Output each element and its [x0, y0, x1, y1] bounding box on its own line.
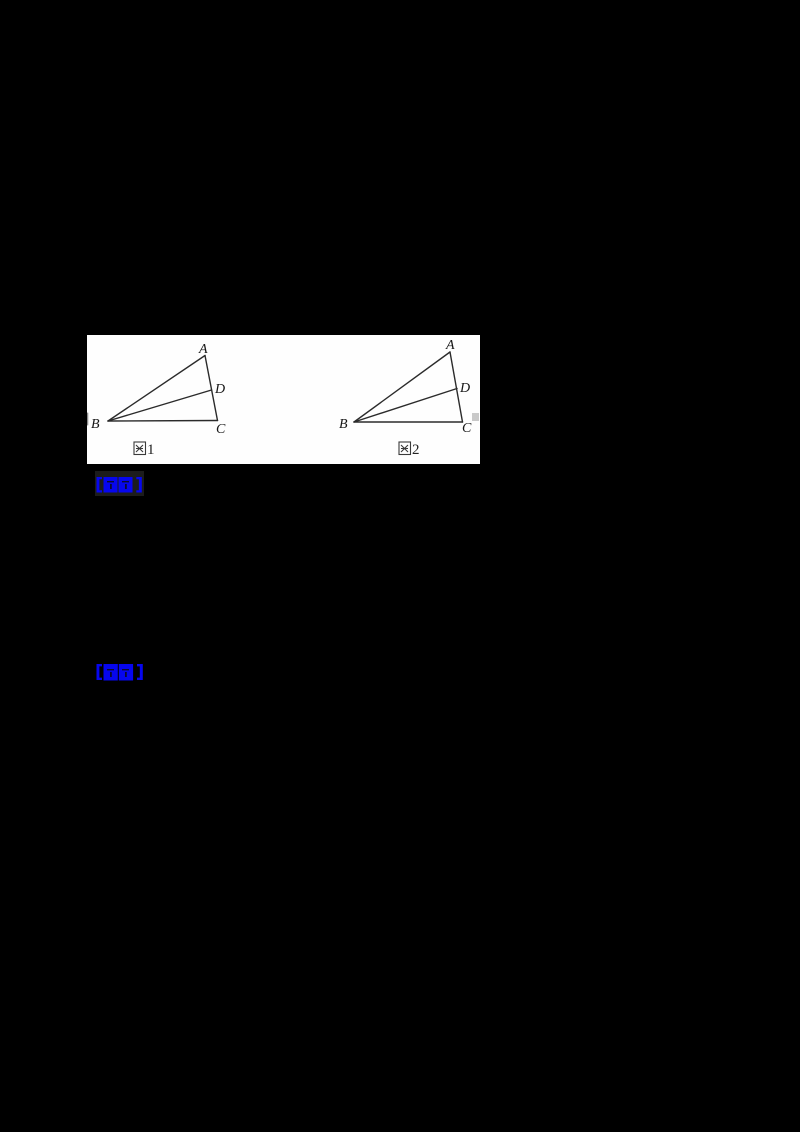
svg-text:A: A — [198, 342, 208, 357]
svg-text:C: C — [216, 422, 226, 437]
svg-text:C: C — [462, 421, 472, 436]
svg-text:B: B — [339, 417, 348, 432]
svg-text:A: A — [445, 338, 455, 353]
svg-text:B: B — [91, 417, 100, 432]
svg-text:2: 2 — [412, 442, 420, 458]
svg-text:D: D — [459, 381, 470, 396]
svg-text:1: 1 — [147, 442, 155, 458]
svg-text:D: D — [214, 382, 225, 397]
